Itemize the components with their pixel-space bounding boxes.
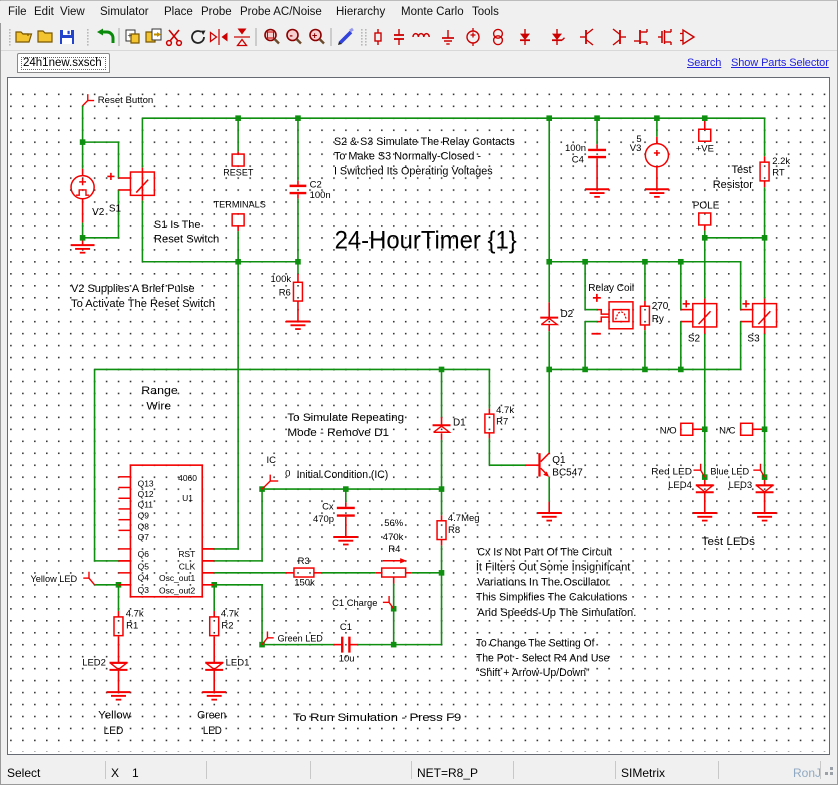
svg-text:And Speeds-Up The Simulation.: And Speeds-Up The Simulation. <box>477 607 636 619</box>
svg-text:POLE: POLE <box>693 201 720 212</box>
svg-text:S2 & S3 Simulate The Relay Con: S2 & S3 Simulate The Relay Contacts <box>334 136 515 148</box>
svg-text:4060: 4060 <box>178 473 197 483</box>
svg-text:24-HourTimer {1}: 24-HourTimer {1} <box>335 226 518 254</box>
svg-text:RT: RT <box>772 167 785 178</box>
svg-text:Ry: Ry <box>652 314 664 325</box>
svg-text:Cx: Cx <box>322 502 334 513</box>
svg-text:This Simplifies The Calculatio: This Simplifies The Calculations <box>476 591 628 603</box>
svg-text:100n: 100n <box>565 143 586 154</box>
svg-text:Q7: Q7 <box>138 532 150 542</box>
svg-text:It Filters Out Some Insignific: It Filters Out Some Insignificant <box>476 562 631 574</box>
svg-text:56%: 56% <box>384 518 404 529</box>
svg-text:+VE: +VE <box>696 143 714 154</box>
svg-text:Green: Green <box>197 710 226 722</box>
svg-text:Relay Coil: Relay Coil <box>588 283 634 294</box>
svg-text:R4: R4 <box>388 544 400 555</box>
svg-text:Blue LED: Blue LED <box>710 466 749 477</box>
svg-text:D2: D2 <box>560 309 573 320</box>
svg-text:C1: C1 <box>340 622 352 633</box>
svg-text:+: + <box>312 31 317 41</box>
svg-text:R8: R8 <box>448 525 460 536</box>
svg-text:Q5: Q5 <box>138 562 150 572</box>
svg-text:100k: 100k <box>271 274 292 285</box>
svg-text:BC547: BC547 <box>552 467 583 478</box>
svg-text:LED1: LED1 <box>226 657 250 668</box>
svg-text:Reset Button: Reset Button <box>98 95 154 106</box>
svg-text:S1 Is The: S1 Is The <box>154 219 201 231</box>
svg-text:Q4: Q4 <box>138 573 150 583</box>
svg-text:RST: RST <box>178 549 195 559</box>
svg-text:LED: LED <box>203 725 222 737</box>
svg-text:Yellow: Yellow <box>98 710 131 722</box>
svg-text:4.7k: 4.7k <box>126 608 144 619</box>
svg-text:S1: S1 <box>109 203 122 214</box>
svg-text:R7: R7 <box>496 416 508 427</box>
svg-text:Q8: Q8 <box>138 521 150 531</box>
svg-text:R3: R3 <box>298 556 310 567</box>
svg-text:R2: R2 <box>221 620 233 631</box>
svg-text:R6: R6 <box>279 287 291 298</box>
svg-text:-: - <box>290 31 293 42</box>
svg-text:C1 Charge: C1 Charge <box>332 598 377 609</box>
svg-text:Variations In The Oscillator: Variations In The Oscillator <box>477 576 609 588</box>
svg-text:U1: U1 <box>182 493 193 503</box>
svg-text:To Simulate Repeating: To Simulate Repeating <box>287 412 404 424</box>
svg-text:LED3: LED3 <box>728 480 752 491</box>
svg-text:Test: Test <box>731 164 751 176</box>
svg-text:V2 Supplies A Brief Pulse: V2 Supplies A Brief Pulse <box>71 283 195 295</box>
svg-text:Q13: Q13 <box>138 478 154 488</box>
svg-text:+: + <box>128 31 133 40</box>
svg-text:R1: R1 <box>126 620 138 631</box>
svg-text:Red LED: Red LED <box>651 466 692 477</box>
svg-text:Q1: Q1 <box>552 455 566 466</box>
svg-text:2.2k: 2.2k <box>772 156 790 167</box>
svg-text:LED: LED <box>104 725 124 737</box>
svg-text:Q12: Q12 <box>138 489 154 499</box>
svg-text:The Pot - Select R4 And Use: The Pot - Select R4 And Use <box>476 652 610 664</box>
svg-text:To Run Simulation - Press F9: To Run Simulation - Press F9 <box>293 712 461 724</box>
svg-text:S2: S2 <box>688 334 701 345</box>
svg-text:4.7k: 4.7k <box>496 405 514 416</box>
svg-text:Cx Is Not Part Of The Circuit: Cx Is Not Part Of The Circuit <box>477 547 612 559</box>
svg-text:C4: C4 <box>572 155 584 166</box>
svg-text:TERMINALS: TERMINALS <box>214 200 266 211</box>
svg-text:Osc_out2: Osc_out2 <box>159 585 196 595</box>
svg-text:Range: Range <box>141 385 178 397</box>
svg-text:4.7k: 4.7k <box>221 608 239 619</box>
svg-text:I Switched Its Operating Volta: I Switched Its Operating Voltages <box>334 165 493 177</box>
svg-text:Q3: Q3 <box>138 585 150 595</box>
svg-text:V3: V3 <box>630 143 642 154</box>
svg-text:150k: 150k <box>294 577 315 588</box>
svg-text:Green LED: Green LED <box>278 634 323 645</box>
svg-text:LED2: LED2 <box>82 657 106 668</box>
svg-text:470k: 470k <box>383 532 404 543</box>
svg-text:CLK: CLK <box>179 562 196 572</box>
svg-text:To Change The Setting Of: To Change The Setting Of <box>476 637 596 649</box>
svg-text:4.7Meg: 4.7Meg <box>448 513 480 524</box>
svg-text:C2: C2 <box>310 179 322 190</box>
svg-text:Resistor: Resistor <box>713 179 754 191</box>
svg-text:10u: 10u <box>339 653 355 664</box>
svg-text:Wire: Wire <box>146 401 171 413</box>
svg-text:Q11: Q11 <box>138 500 154 510</box>
svg-text:Test LEDs: Test LEDs <box>702 536 756 548</box>
svg-text:Q6: Q6 <box>138 549 150 559</box>
svg-text:IC: IC <box>267 455 277 466</box>
svg-text:Reset Switch: Reset Switch <box>154 234 219 246</box>
svg-text:Q9: Q9 <box>138 511 150 521</box>
svg-text:LED4: LED4 <box>668 480 692 491</box>
svg-text:Mode - Remove D1: Mode - Remove D1 <box>287 427 389 439</box>
svg-text:Yellow LED: Yellow LED <box>30 574 77 585</box>
svg-text:To Make S3 Normally-Closed -: To Make S3 Normally-Closed - <box>334 150 481 162</box>
svg-text:S3: S3 <box>747 334 760 345</box>
svg-text:“Shift + Arrow-Up/Down”: “Shift + Arrow-Up/Down” <box>476 667 590 679</box>
svg-text:100n: 100n <box>310 190 331 201</box>
svg-text:N/O: N/O <box>660 426 677 437</box>
svg-text:470p: 470p <box>313 514 334 525</box>
svg-text:V2: V2 <box>92 207 105 218</box>
svg-text:To Activate The Reset Switch: To Activate The Reset Switch <box>71 298 215 310</box>
svg-text:Initial Condition (IC): Initial Condition (IC) <box>297 469 389 481</box>
svg-text:RESET: RESET <box>223 168 253 179</box>
svg-text:270: 270 <box>652 301 669 312</box>
svg-text:N/C: N/C <box>719 426 735 437</box>
svg-text:Osc_out1: Osc_out1 <box>159 573 196 583</box>
svg-text:0: 0 <box>285 468 290 479</box>
svg-text:D1: D1 <box>453 417 466 428</box>
